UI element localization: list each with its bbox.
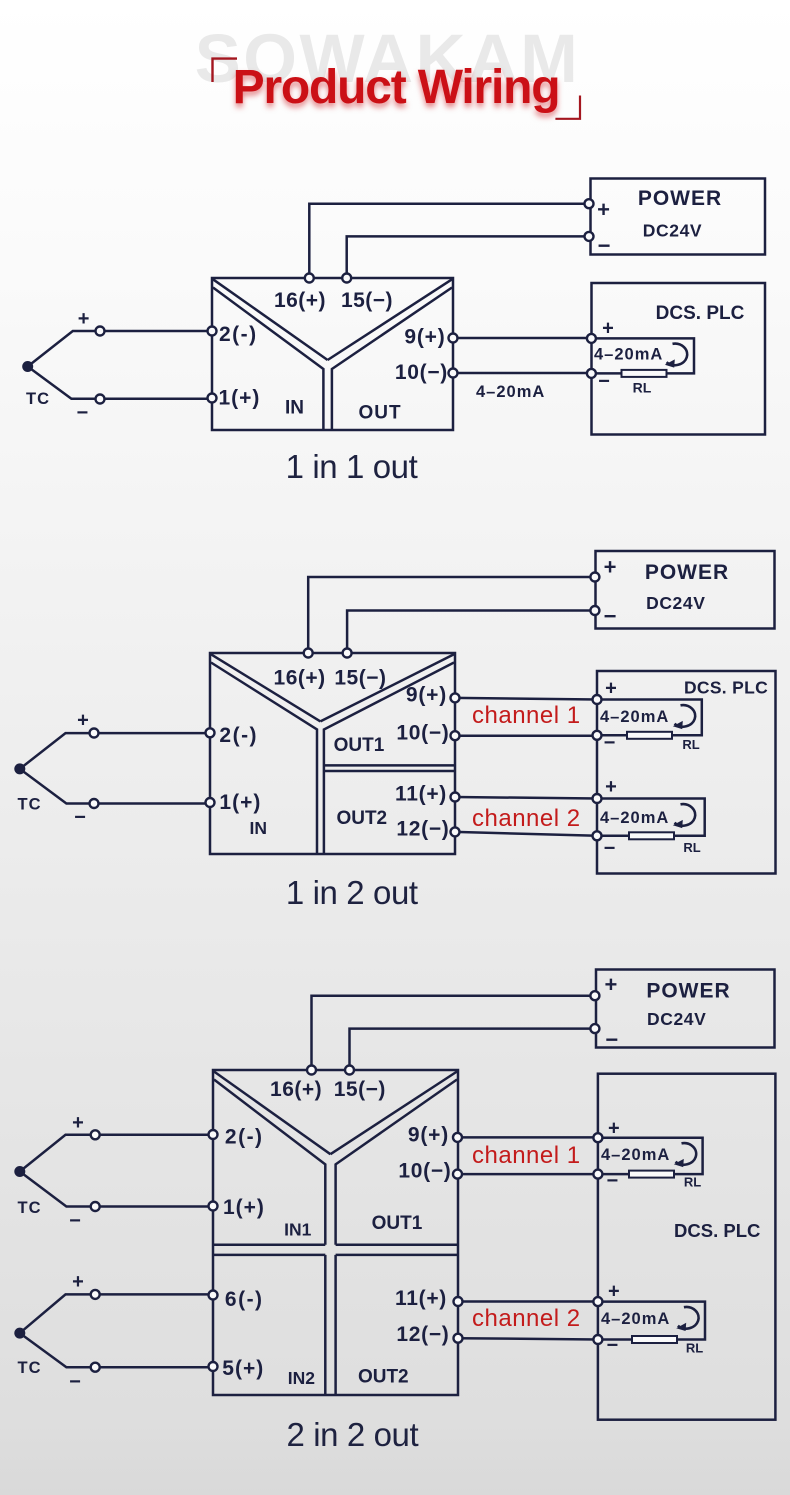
U1 Y-divider outer right arm [328, 279, 452, 360]
svg-text:1 in 2 out: 1 in 2 out [286, 874, 418, 911]
wire: 11(+) to DCS2 ch2 + [455, 797, 597, 799]
svg-text:RL: RL [686, 1341, 703, 1356]
svg-text:15(−): 15(−) [341, 289, 393, 312]
svg-text:RL: RL [684, 1175, 701, 1190]
svg-text:+: + [605, 776, 617, 798]
thermocouple TC3 wire + [20, 1135, 213, 1172]
U3 left channel line lower [324, 1255, 327, 1394]
wire: terminal 15(-) to PS3 - [350, 1029, 595, 1070]
power supply box PS3 [596, 970, 775, 1048]
terminal 2(-) on U1 [208, 327, 217, 336]
wire: 10(-) to DCS2 ch1 - [455, 734, 597, 737]
svg-text:−: − [604, 604, 617, 629]
current loop wire ch2 (DCS3) [598, 1302, 705, 1340]
svg-text:16(+): 16(+) [274, 667, 326, 690]
svg-text:Product Wiring: Product Wiring [233, 61, 560, 114]
TC3 junction dot [14, 1166, 25, 1177]
resistor RL (DCS3 ch1) [629, 1171, 674, 1178]
svg-text:POWER: POWER [645, 561, 729, 584]
terminal 6(-) on U3 [209, 1291, 218, 1300]
svg-text:OUT2: OUT2 [358, 1367, 409, 1388]
loop direction arrow (DCS1) [665, 344, 687, 368]
wire: terminal 16(+) to PS3 + [312, 996, 595, 1070]
svg-text:2 in 2 out: 2 in 2 out [287, 1416, 419, 1453]
loop direction arrow (DCS3 ch2) [676, 1307, 698, 1331]
terminal 12(-) on U3 [454, 1334, 463, 1343]
U3 Y-divider inner left arm + left channel line upper [214, 1080, 325, 1245]
svg-text:10(−): 10(−) [395, 361, 448, 384]
current loop wire ch1 (DCS2) [597, 700, 702, 736]
U3 Y-divider outer right arm [330, 1072, 457, 1155]
terminal DCS1 + [587, 334, 596, 343]
svg-text:−: − [607, 1170, 619, 1192]
terminal PS3 - [590, 1024, 599, 1033]
terminal DCS1 - [587, 369, 596, 378]
TC3 + lead terminal [91, 1130, 100, 1139]
svg-text:10(−): 10(−) [396, 722, 449, 745]
terminal 11(+) on U2 [451, 793, 460, 802]
thermocouple TC3 wire - [20, 1172, 213, 1207]
wire: 10(-) to DCS - [453, 372, 591, 375]
title bracket bottom-right [555, 96, 580, 119]
svg-text:4–20mA: 4–20mA [601, 1146, 670, 1164]
terminal 15(-) [342, 274, 351, 283]
terminal PS2 - [590, 606, 599, 615]
TC3 - lead terminal [91, 1202, 100, 1211]
svg-text:OUT2: OUT2 [336, 808, 387, 829]
DCS PLC box 3 (load) [598, 1074, 776, 1420]
svg-text:−: − [598, 371, 610, 393]
svg-text:11(+): 11(+) [395, 1287, 447, 1310]
svg-text:IN: IN [285, 398, 304, 419]
U2 divider OUT1/OUT2 upper line [324, 764, 455, 767]
svg-text:16(+): 16(+) [274, 289, 326, 312]
svg-text:+: + [604, 972, 617, 997]
svg-text:−: − [605, 1027, 618, 1052]
svg-text:2(-): 2(-) [225, 1126, 264, 1149]
U3 horizontal divider upper-left [214, 1243, 325, 1246]
isolator U2 body [210, 653, 455, 854]
terminal DCS2 ch2 + [593, 794, 602, 803]
DCS PLC box 2 (load) [597, 671, 776, 874]
svg-text:−: − [598, 233, 611, 258]
terminal DCS2 ch1 - [593, 731, 602, 740]
TC1 - lead terminal [96, 395, 105, 404]
wire: 9(+) to DCS + [453, 337, 591, 340]
svg-text:+: + [72, 1112, 84, 1134]
terminal PS1 + [585, 199, 594, 208]
terminal 11(+) on U3 [454, 1297, 463, 1306]
U3 right channel line lower [334, 1255, 337, 1394]
loop direction arrow (DCS2 ch2) [673, 804, 695, 828]
svg-text:5(+): 5(+) [222, 1357, 264, 1380]
svg-text:11(+): 11(+) [395, 783, 447, 806]
resistor RL (DCS2 ch2) [629, 832, 674, 839]
terminal DCS3 ch1 + [593, 1133, 602, 1142]
terminal 16(+) U2 [304, 649, 313, 658]
terminal 1(+) on U3 [209, 1202, 218, 1211]
terminal 16(+) [305, 274, 314, 283]
svg-text:DCS. PLC: DCS. PLC [684, 678, 768, 698]
svg-text:POWER: POWER [638, 187, 722, 210]
terminal 2(-) on U3 [209, 1130, 218, 1139]
title bracket top-left [213, 59, 238, 82]
svg-text:2(-): 2(-) [219, 724, 258, 747]
svg-text:OUT1: OUT1 [334, 735, 385, 756]
U1 Y-divider inner right arm + right channel line [332, 288, 452, 430]
U2 Y-divider inner right arm + right channel line [324, 663, 454, 854]
thermocouple TC2 wire - [20, 769, 210, 804]
svg-text:IN2: IN2 [288, 1368, 316, 1388]
terminal 15(-) U3 [345, 1066, 354, 1075]
U2 Y-divider outer right arm [320, 654, 454, 721]
terminal DCS3 ch2 - [593, 1335, 602, 1344]
svg-text:channel 2: channel 2 [472, 805, 581, 832]
thermocouple TC1 wire + [28, 331, 212, 367]
svg-text:1 in 1 out: 1 in 1 out [286, 448, 418, 485]
wire: 11(+) to DCS3 ch2 + [458, 1300, 598, 1303]
svg-text:TC: TC [18, 1199, 42, 1217]
resistor RL (DCS2 ch1) [627, 732, 672, 739]
terminal DCS3 ch1 - [593, 1170, 602, 1179]
TC4 junction dot [14, 1328, 25, 1339]
loop direction arrow (DCS3 ch1) [674, 1143, 696, 1167]
wire: terminal 15(-) to PS1 - [347, 236, 589, 278]
svg-text:+: + [604, 555, 617, 580]
svg-text:OUT: OUT [358, 403, 401, 424]
svg-text:6(-): 6(-) [225, 1288, 264, 1311]
svg-text:TC: TC [18, 1359, 42, 1377]
terminal DCS2 ch2 - [593, 831, 602, 840]
TC2 + lead terminal [90, 729, 99, 738]
U1 Y-divider inner left arm + left channel line [213, 288, 323, 430]
svg-text:9(+): 9(+) [408, 1124, 449, 1147]
U3 horizontal divider lower-left [214, 1254, 325, 1257]
terminal PS3 + [590, 991, 599, 1000]
thermocouple TC4 wire - [20, 1333, 213, 1367]
terminal 12(-) on U2 [451, 827, 460, 836]
terminal 1(+) on U2 [206, 798, 215, 807]
svg-text:2(-): 2(-) [219, 323, 258, 346]
terminal 5(+) on U3 [209, 1362, 218, 1371]
svg-text:RL: RL [633, 380, 652, 396]
U3 Y-divider inner right arm + right channel line upper [336, 1080, 457, 1245]
wire: terminal 16(+) to PS2 + [308, 577, 595, 653]
terminal PS1 - [585, 232, 594, 241]
svg-text:POWER: POWER [646, 980, 730, 1003]
resistor RL (DCS3 ch2) [632, 1336, 677, 1343]
svg-text:4–20mA: 4–20mA [476, 383, 545, 401]
terminal 16(+) U3 [307, 1066, 316, 1075]
svg-text:1(+): 1(+) [223, 1196, 265, 1219]
svg-text:4–20mA: 4–20mA [600, 809, 669, 827]
svg-text:TC: TC [18, 796, 42, 814]
power supply box PS2 [596, 551, 775, 629]
svg-text:4–20mA: 4–20mA [594, 346, 663, 364]
svg-text:1(+): 1(+) [219, 791, 261, 814]
svg-text:−: − [604, 838, 616, 860]
thermocouple TC1 wire - [28, 367, 212, 399]
svg-text:4–20mA: 4–20mA [601, 1310, 670, 1328]
wire: terminal 16(+) to PS1 + [309, 204, 589, 278]
terminal 9(+) on U1 [449, 334, 458, 343]
svg-text:1(+): 1(+) [219, 387, 261, 410]
U2 Y-divider outer left arm [211, 654, 320, 721]
terminal 2(-) on U2 [206, 728, 215, 737]
wire: 9(+) to DCS3 ch1 + [458, 1136, 598, 1139]
wire: terminal 15(-) to PS2 - [347, 611, 595, 654]
DCS PLC box (load) [592, 283, 766, 435]
svg-text:channel 1: channel 1 [472, 702, 581, 729]
TC4 - lead terminal [91, 1363, 100, 1372]
U3 horizontal divider upper-right [336, 1243, 457, 1246]
loop direction arrow (DCS2 ch1) [673, 705, 695, 729]
svg-text:channel 1: channel 1 [472, 1142, 581, 1169]
isolator U1 body [212, 278, 453, 430]
TC2 - lead terminal [90, 799, 99, 808]
svg-text:+: + [602, 318, 614, 340]
terminal 15(-) U2 [343, 649, 352, 658]
svg-text:+: + [608, 1118, 620, 1140]
svg-text:RL: RL [683, 840, 700, 855]
terminal PS2 + [590, 573, 599, 582]
svg-text:DCS. PLC: DCS. PLC [674, 1220, 760, 1241]
terminal 10(-) on U3 [453, 1170, 462, 1179]
svg-text:9(+): 9(+) [406, 684, 447, 707]
svg-text:−: − [69, 1210, 81, 1232]
svg-text:−: − [77, 402, 89, 424]
TC1 junction dot [22, 361, 33, 372]
wire: 12(-) to DCS2 ch2 - [455, 832, 597, 836]
wire: 12(-) to DCS3 ch2 - [458, 1338, 598, 1339]
terminal DCS2 ch1 + [593, 695, 602, 704]
svg-text:−: − [607, 1335, 619, 1357]
U1 Y-divider outer left arm [213, 279, 328, 360]
svg-text:16(+): 16(+) [270, 1078, 322, 1101]
svg-text:+: + [78, 308, 90, 330]
svg-text:12(−): 12(−) [396, 818, 449, 841]
terminal 1(+) on U1 [208, 394, 217, 403]
thermocouple TC4 wire + [20, 1294, 213, 1333]
terminal 9(+) on U2 [451, 693, 460, 702]
svg-text:DC24V: DC24V [646, 593, 705, 613]
svg-text:RL: RL [682, 737, 699, 752]
svg-text:−: − [74, 807, 86, 829]
svg-text:+: + [77, 710, 89, 732]
svg-text:DC24V: DC24V [643, 221, 702, 241]
power supply box PS1 [591, 179, 766, 255]
terminal 9(+) on U3 [453, 1133, 462, 1142]
svg-text:TC: TC [26, 390, 50, 408]
svg-text:IN: IN [250, 818, 268, 838]
svg-text:+: + [605, 678, 617, 700]
U2 divider OUT1/OUT2 lower line [324, 770, 455, 773]
U3 Y-divider outer left arm [214, 1072, 330, 1155]
wire: 9(+) to DCS2 ch1 + [455, 698, 597, 700]
svg-text:channel 2: channel 2 [472, 1305, 581, 1332]
U3 horizontal divider lower-right [336, 1254, 457, 1257]
svg-text:−: − [69, 1371, 81, 1393]
svg-text:+: + [72, 1271, 84, 1293]
svg-text:+: + [608, 1281, 620, 1303]
svg-text:15(−): 15(−) [334, 1078, 386, 1101]
svg-text:12(−): 12(−) [396, 1323, 449, 1346]
svg-text:IN1: IN1 [284, 1220, 312, 1240]
svg-text:9(+): 9(+) [404, 326, 445, 349]
TC1 + lead terminal [96, 327, 105, 336]
svg-text:OUT1: OUT1 [372, 1213, 423, 1234]
U2 Y-divider inner left arm + left channel line [211, 663, 317, 854]
svg-text:10(−): 10(−) [398, 1160, 451, 1183]
svg-text:DCS. PLC: DCS. PLC [656, 303, 745, 324]
TC4 + lead terminal [91, 1290, 100, 1299]
resistor RL1 [622, 370, 667, 377]
TC2 junction dot [14, 763, 25, 774]
terminal 10(-) on U2 [451, 731, 460, 740]
terminal DCS3 ch2 + [593, 1297, 602, 1306]
svg-text:−: − [604, 732, 616, 754]
svg-text:15(−): 15(−) [334, 667, 386, 690]
current loop wire (DCS1) [591, 338, 694, 373]
svg-text:DC24V: DC24V [647, 1009, 706, 1029]
isolator U3 body [213, 1070, 458, 1395]
svg-text:4–20mA: 4–20mA [600, 708, 669, 726]
current loop wire ch1 (DCS3) [598, 1138, 703, 1174]
terminal 10(-) on U1 [449, 369, 458, 378]
wire: 10(-) to DCS3 ch1 - [458, 1173, 598, 1176]
svg-text:+: + [597, 197, 610, 222]
current loop wire ch2 (DCS2) [597, 799, 705, 836]
thermocouple TC2 wire + [20, 733, 210, 769]
